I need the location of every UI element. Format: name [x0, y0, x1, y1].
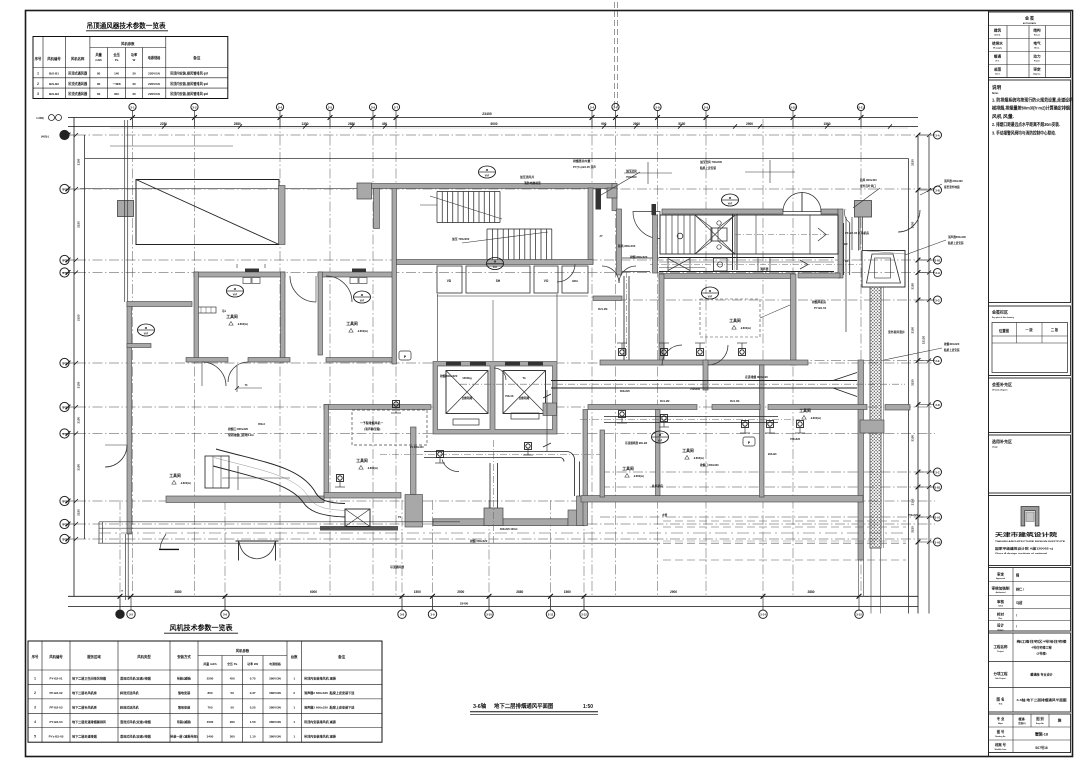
svg-text:风机类型: 风机类型	[137, 654, 151, 659]
svg-text:3-11: 3-11	[548, 613, 554, 617]
svg-text:3150: 3150	[77, 221, 81, 228]
svg-text:3-D: 3-D	[935, 403, 939, 407]
svg-text:1.50: 1.50	[250, 720, 256, 724]
svg-text:消声器 600x400: 消声器 600x400	[944, 179, 963, 183]
svg-text:-9.800(m): -9.800(m)	[740, 327, 751, 330]
svg-text:PY(Ys)-B2-05 消声: PY(Ys)-B2-05 消声	[573, 165, 596, 169]
svg-text:2: 2	[37, 82, 39, 86]
svg-text:-9.800(m): -9.800(m)	[633, 475, 644, 478]
svg-text:(400) |: (400) |	[41, 135, 49, 139]
svg-text:3150: 3150	[911, 327, 915, 334]
svg-text:一予留排烟风机一: 一予留排烟风机一	[360, 420, 383, 425]
svg-text:选用补充区: 选用补充区	[992, 438, 1012, 444]
svg-text:1-6D9|: 1-6D9|	[36, 117, 44, 120]
svg-text:3-6: 3-6	[371, 105, 376, 109]
svg-text:/: /	[1016, 613, 1017, 617]
right rooms walls	[600, 360, 808, 365]
svg-text:1500: 1500	[414, 590, 421, 594]
svg-text:3. 手动报警风阀均与消防控制中心联动.: 3. 手动报警风阀均与消防控制中心联动.	[992, 129, 1056, 136]
svg-text:VAF: VAF	[728, 202, 733, 205]
svg-text:1:50: 1:50	[583, 704, 593, 710]
fan symbol 6	[487, 258, 504, 270]
svg-text:BiS-B3: BiS-B3	[768, 452, 777, 456]
svg-text:吊1: 吊1	[222, 309, 227, 313]
svg-text:排烟口 800x320: 排烟口 800x320	[228, 427, 249, 431]
svg-text:风机 风量.: 风机 风量.	[992, 113, 1014, 120]
lobby walls	[437, 294, 439, 361]
svg-text:0.75: 0.75	[250, 677, 256, 681]
svg-text:1: 1	[293, 734, 295, 738]
leader annotations	[596, 172, 640, 198]
svg-text:梅江南住宅区4号地住宅楼: 梅江南住宅区4号地住宅楼	[1017, 639, 1068, 644]
svg-text:P: P	[404, 355, 407, 359]
svg-text:建筑: 建筑	[993, 28, 1002, 33]
svg-text:3-9: 3-9	[430, 613, 434, 617]
svg-text:国家甲级建筑设计院 A级120062-sj: 国家甲级建筑设计院 A级120062-sj	[995, 546, 1053, 551]
door arc east	[898, 210, 920, 232]
svg-text:700x400: 700x400	[690, 387, 701, 391]
svg-text:760x320: 760x320	[790, 437, 801, 441]
svg-text:3-8: 3-8	[655, 105, 660, 109]
ramp diagonal	[136, 180, 279, 245]
svg-text:30: 30	[132, 72, 136, 76]
ramp outline	[136, 180, 279, 245]
svg-text:RLS-2M: RLS-2M	[598, 308, 607, 311]
svg-text:750x320: 750x320	[908, 514, 918, 517]
svg-text:4号住宅楼工程: 4号住宅楼工程	[1031, 644, 1052, 649]
shaft boxes	[437, 266, 462, 293]
svg-text:吊顶内安装排风机 减振: 吊顶内安装排风机 减振	[304, 733, 337, 738]
svg-text:吊顶式通风器: 吊顶式通风器	[68, 91, 88, 96]
svg-text:M: M	[709, 289, 712, 293]
svg-text:800: 800	[207, 691, 212, 695]
dark wall segment SW	[320, 526, 398, 531]
upper faint line	[110, 127, 908, 129]
svg-text:斜流式送风机: 斜流式送风机	[119, 690, 139, 695]
svg-text:地下二层卫生间排风排烟: 地下二层卫生间排风排烟	[72, 676, 106, 681]
room2 walls	[318, 272, 396, 277]
NE intake duct lines	[858, 217, 860, 251]
svg-text:风机参数: 风机参数	[121, 41, 135, 46]
svg-text:PF-B2-03: PF-B2-03	[49, 705, 62, 709]
svg-text:电源规格: 电源规格	[269, 661, 281, 666]
svg-text:总图: 总图	[994, 67, 1002, 72]
svg-text:3-11: 3-11	[858, 105, 864, 109]
svg-text:吊顶式通风器: 吊顶式通风器	[68, 71, 88, 76]
svg-text:风机技术参数一览表: 风机技术参数一览表	[170, 623, 234, 632]
svg-text:30: 30	[132, 82, 136, 86]
svg-text:PY-B2-01: PY-B2-01	[49, 677, 62, 681]
svg-text:校对: 校对	[997, 611, 1005, 616]
duct fittings	[619, 349, 626, 356]
svg-text:3150: 3150	[911, 526, 915, 533]
svg-text:VAF: VAF	[708, 295, 713, 298]
air handling unit	[660, 215, 838, 254]
left dimension lines	[73, 118, 75, 597]
svg-text:700: 700	[207, 705, 212, 709]
svg-text:80: 80	[97, 72, 101, 76]
west wing grille	[196, 307, 216, 313]
svg-text:Approved: Approved	[996, 577, 1006, 580]
west outer lower lines	[98, 522, 100, 543]
svg-text:落地安装: 落地安装	[178, 690, 191, 695]
svg-text:常闭排烟口距地2.2m: 常闭排烟口距地2.2m	[228, 433, 254, 437]
svg-text:BiS-B3: BiS-B3	[49, 92, 59, 96]
svg-text:地下二层走道排烟: 地下二层走道排烟	[72, 733, 97, 738]
svg-text:消声器600x400: 消声器600x400	[948, 235, 966, 239]
svg-text:混流式风机(双速)/排烟: 混流式风机(双速)/排烟	[120, 676, 151, 681]
project name rows	[989, 633, 1071, 712]
svg-text:3400: 3400	[207, 734, 214, 738]
svg-text:3150: 3150	[911, 159, 915, 166]
svg-text:-9.800(m): -9.800(m)	[237, 323, 248, 326]
svg-text:(消声静压箱): (消声静压箱)	[364, 426, 380, 431]
door arc stair	[557, 265, 575, 283]
svg-text:350x4: 350x4	[258, 423, 266, 426]
fresh air intake	[862, 251, 905, 288]
svg-text:分项工程: 分项工程	[994, 671, 1008, 676]
stair west wall	[392, 188, 397, 364]
door arc room2	[326, 276, 352, 302]
svg-text:H.V.: H.V.	[996, 61, 1000, 63]
west wall lower lines	[125, 534, 127, 600]
svg-text:Usage: Usage	[992, 447, 998, 449]
svg-text:3-8: 3-8	[400, 613, 404, 617]
svg-text:3-J: 3-J	[62, 258, 66, 262]
svg-text:380V/3N: 380V/3N	[269, 677, 281, 681]
south rooms wall	[581, 496, 863, 503]
svg-text:加重轿厢: 加重轿厢	[518, 396, 530, 400]
hatched air shaft	[870, 287, 881, 548]
east wall tail lines	[858, 560, 860, 596]
svg-text:BiS-B2: BiS-B2	[49, 82, 59, 86]
svg-text:3150: 3150	[911, 283, 915, 290]
svg-text:Elect.: Elect.	[1034, 47, 1040, 50]
svg-text:1: 1	[34, 677, 36, 681]
door arc south1	[160, 534, 166, 549]
svg-text:图 别: 图 别	[1036, 716, 1044, 721]
version table section	[989, 306, 1071, 376]
svg-text:工具间: 工具间	[169, 473, 181, 478]
svg-text:RLS-1M: RLS-1M	[730, 400, 739, 403]
svg-text:3-J: 3-J	[62, 187, 66, 191]
svg-text:功率 kW: 功率 kW	[247, 661, 258, 666]
double door south	[236, 540, 279, 542]
svg-text:图 号: 图 号	[997, 729, 1005, 734]
interior dims	[546, 390, 548, 452]
svg-text:会签补充区: 会签补充区	[992, 381, 1012, 387]
svg-text:服务区域: 服务区域	[87, 654, 101, 659]
AHU west wall2	[653, 215, 658, 273]
svg-text:排烟 500x320: 排烟 500x320	[470, 539, 488, 543]
svg-text:3150: 3150	[77, 381, 81, 388]
svg-text:械排烟,排烟量按60m3/(h·m2)计算确定排烟: 械排烟,排烟量按60m3/(h·m2)计算确定排烟	[992, 105, 1071, 112]
door arc mid	[290, 276, 316, 302]
svg-text:动力: 动力	[1033, 54, 1041, 59]
door arc lobby2	[442, 460, 459, 472]
svg-text:3-15: 3-15	[856, 613, 862, 617]
svg-text:暖施-18: 暖施-18	[1035, 732, 1048, 737]
svg-text:天津市建筑设计院: 天津市建筑设计院	[995, 531, 1058, 539]
svg-text:Power: Power	[1034, 61, 1040, 63]
svg-text:室外百叶风口: 室外百叶风口	[860, 184, 876, 188]
svg-text:2580: 2580	[234, 122, 241, 126]
svg-text:P: P	[748, 441, 751, 445]
AHU room south wall b	[798, 273, 840, 278]
svg-text:800x320: 800x320	[620, 390, 630, 393]
svg-text:3150: 3150	[911, 498, 915, 505]
svg-text:260: 260	[230, 720, 235, 724]
svg-text:1350kg: 1350kg	[462, 376, 472, 380]
svg-text:地下二层补风机房: 地下二层补风机房	[72, 690, 97, 695]
south line b	[99, 527, 330, 529]
svg-text:70: 70	[245, 384, 248, 387]
svg-text:图 名: 图 名	[997, 696, 1005, 701]
ramp east wall	[279, 186, 286, 245]
svg-text:3150: 3150	[77, 314, 81, 321]
svg-text:说明: 说明	[992, 84, 1002, 91]
svg-text:接至室外地面: 接至室外地面	[943, 185, 960, 189]
svg-text:吊顶内安装排风机 减振: 吊顶内安装排风机 减振	[304, 719, 337, 724]
svg-text:3-J: 3-J	[62, 271, 66, 275]
svg-text:1: 1	[293, 677, 295, 681]
west wall upper lines	[124, 120, 126, 302]
svg-text:工具间: 工具间	[729, 318, 741, 323]
AHU room south wall a	[659, 274, 795, 279]
svg-text:排烟 800x320: 排烟 800x320	[630, 255, 648, 259]
fan symbol 5	[702, 287, 719, 299]
svg-text:备注: 备注	[192, 55, 201, 60]
svg-text:PF-B2-02 补风机房: PF-B2-02 补风机房	[845, 231, 869, 235]
svg-text:吊顶内安装,接风管排风 φd: 吊顶内安装,接风管排风 φd	[170, 81, 208, 86]
svg-text:贴梁上皮安装: 贴梁上皮安装	[948, 241, 964, 245]
svg-text:工具间: 工具间	[682, 448, 694, 453]
door arc AHU room	[633, 212, 660, 239]
top-left fan spec table	[33, 37, 228, 99]
north wall A	[368, 184, 617, 189]
svg-text:40C: 40C	[114, 92, 120, 96]
svg-text:PF-B2-02: PF-B2-02	[49, 691, 62, 695]
svg-text:贴梁上皮安装: 贴梁上皮安装	[944, 348, 960, 352]
svg-text:VAF: VAF	[658, 439, 663, 442]
svg-text:序号: 序号	[31, 654, 39, 659]
svg-text:-9.800(m): -9.800(m)	[693, 457, 704, 460]
svg-text:Struct.: Struct.	[1034, 34, 1041, 37]
legend section	[989, 435, 1071, 493]
svg-text:3-5: 3-5	[129, 613, 133, 617]
svg-text:落地安装: 落地安装	[178, 704, 191, 709]
svg-text:消声器2 600x320 ,贴梁上皮安装下送: 消声器2 600x320 ,贴梁上皮安装下送	[304, 704, 355, 709]
svg-text:3-10: 3-10	[790, 105, 796, 109]
vertical centerline top	[614, 2, 616, 107]
east site line	[908, 159, 910, 614]
svg-text:设计: 设计	[997, 623, 1005, 628]
svg-text:全压 Pa: 全压 Pa	[226, 661, 238, 666]
svg-text:电气: 电气	[1033, 41, 1041, 46]
svg-text:Major: Major	[998, 723, 1003, 725]
svg-text:Sub Project: Sub Project	[995, 677, 1006, 680]
svg-text:380V/3N: 380V/3N	[269, 691, 281, 695]
svg-text:2: 2	[293, 691, 295, 695]
svg-text:3-A2: 3-A2	[935, 540, 941, 544]
south line c	[98, 542, 660, 544]
bottom dimension lines	[68, 595, 918, 597]
svg-text:Workfile Case: Workfile Case	[995, 749, 1007, 751]
fan room dashed box	[700, 299, 760, 337]
svg-text:空调(K): 空调(K)	[1018, 721, 1026, 725]
door arc room1b	[228, 362, 248, 382]
svg-text:斜流式送风机: 斜流式送风机	[119, 704, 139, 709]
door arc room1	[202, 362, 226, 386]
svg-text:吊装(减振): 吊装(减振)	[177, 719, 191, 724]
svg-text:AUTOGRAPH: AUTOGRAPH	[1023, 22, 1037, 25]
svg-text:Drawn: Drawn	[998, 629, 1005, 631]
svg-text:2880: 2880	[174, 590, 181, 594]
svg-text:450: 450	[382, 122, 388, 126]
svg-text:(3号楼): (3号楼)	[1037, 650, 1047, 655]
curved exhaust duct	[213, 466, 345, 517]
svg-text:3150: 3150	[77, 417, 81, 424]
svg-text:安装方式: 安装方式	[177, 654, 191, 659]
double door arcs N	[783, 193, 802, 212]
door arc rrooms2	[708, 345, 728, 365]
svg-text:0.25: 0.25	[250, 705, 256, 709]
svg-text:吊装(减振): 吊装(减振)	[177, 676, 191, 681]
svg-text:23400: 23400	[482, 112, 492, 116]
svg-text:序号: 序号	[34, 56, 42, 61]
svg-text:-9.800(m): -9.800(m)	[810, 417, 821, 420]
svg-text:Project: Project	[997, 650, 1004, 653]
svg-text:3-6轴 地下二层排烟通风平面图: 3-6轴 地下二层排烟通风平面图	[1017, 697, 1067, 702]
JY room bottom wall	[593, 296, 622, 301]
dark stub NW of AHU	[652, 204, 657, 215]
svg-text:1350: 1350	[301, 122, 308, 126]
svg-text:3150: 3150	[911, 379, 915, 386]
svg-text:暖通施 专业设计: 暖通施 专业设计	[1030, 672, 1053, 677]
svg-text:水管: 水管	[662, 513, 668, 517]
svg-text:审核加强制: 审核加强制	[992, 585, 1011, 590]
svg-text:吊顶通风器 BiS-B2: 吊顶通风器 BiS-B2	[625, 441, 648, 445]
BF duct	[843, 223, 845, 275]
svg-text:位置图: 位置图	[999, 328, 1010, 333]
svg-text:300: 300	[230, 734, 235, 738]
title bottom block	[989, 714, 1071, 753]
svg-text:3-J: 3-J	[62, 405, 66, 409]
svg-text:3-H1: 3-H1	[935, 258, 941, 262]
svg-text:3-4: 3-4	[278, 105, 283, 109]
svg-text:排烟400x320: 排烟400x320	[944, 342, 960, 346]
svg-text:80: 80	[97, 82, 101, 86]
svg-text:23400: 23400	[460, 602, 469, 606]
north wall B	[662, 209, 783, 214]
svg-text:加压送风井: 加压送风井	[519, 175, 534, 179]
svg-text:3: 3	[34, 705, 36, 709]
svg-text:工具间: 工具间	[346, 321, 358, 326]
svg-text:排烟竖井内置: 排烟竖井内置	[573, 158, 590, 163]
svg-text:2500: 2500	[207, 677, 214, 681]
approval rows	[989, 568, 1071, 632]
svg-text:备注: 备注	[337, 654, 346, 659]
svg-text:3-10: 3-10	[486, 613, 492, 617]
svg-text:220V/1N: 220V/1N	[148, 92, 160, 96]
svg-text:Pa: Pa	[115, 58, 119, 62]
svg-text:给排水: 给排水	[992, 41, 1003, 46]
svg-text:混流式风机(双速)/排烟: 混流式风机(双速)/排烟	[120, 733, 151, 738]
svg-text:工具间: 工具间	[799, 408, 811, 413]
west wall	[127, 302, 132, 534]
svg-text:消防电梯前室: 消防电梯前室	[523, 181, 541, 185]
svg-text:工具间: 工具间	[356, 458, 368, 463]
fan room east wall	[791, 274, 797, 365]
svg-text:BiS-B1: BiS-B1	[49, 72, 59, 76]
svg-text:3150: 3150	[77, 509, 81, 516]
svg-text:室外新风竖井: 室外新风竖井	[888, 330, 905, 334]
svg-text:排烟口 800x320: 排烟口 800x320	[700, 463, 719, 467]
svg-text:1: 1	[293, 705, 295, 709]
svg-text:Class A design institute of na: Class A design institute of national	[995, 552, 1048, 555]
column box NE	[855, 201, 872, 218]
exhaust duct band	[659, 257, 834, 259]
north wall C	[821, 209, 838, 214]
svg-text:3-C: 3-C	[935, 470, 939, 474]
svg-text:加压送风: 加压送风	[625, 169, 637, 173]
svg-text:3-J: 3-J	[62, 499, 66, 503]
branch ducts	[424, 451, 566, 453]
title block left border	[988, 11, 990, 757]
svg-text:Key plan of this drawing: Key plan of this drawing	[992, 316, 1015, 319]
svg-text:5150: 5150	[678, 122, 685, 126]
south step wall a	[568, 510, 584, 526]
svg-text:M: M	[145, 326, 148, 330]
svg-text:3-7: 3-7	[394, 105, 399, 109]
svg-text:3-G: 3-G	[935, 298, 939, 302]
svg-text:二 版: 二 版	[1051, 327, 1059, 332]
fan symbol 1	[138, 324, 155, 336]
svg-text:140: 140	[114, 72, 119, 76]
svg-text:3-B: 3-B	[935, 188, 939, 192]
svg-text:功率: 功率	[131, 52, 138, 57]
svg-text:220V/1N: 220V/1N	[148, 72, 160, 76]
svg-text:工具间: 工具间	[622, 466, 634, 471]
room1 walls	[194, 272, 285, 277]
svg-text:RLS-2M: RLS-2M	[660, 400, 669, 403]
west wall step	[127, 344, 151, 348]
svg-text:450: 450	[230, 677, 235, 681]
svg-text:3-J: 3-J	[62, 361, 66, 365]
svg-text:3150: 3150	[77, 464, 81, 471]
svg-text:台数: 台数	[291, 654, 298, 659]
NE riser lines	[845, 217, 847, 332]
svg-text:Gen.l: Gen.l	[995, 74, 1000, 76]
horizontal axis grid lines	[76, 134, 935, 136]
fan symbol 3	[354, 291, 371, 303]
svg-text:700x18: 700x18	[505, 395, 514, 398]
svg-text:600x320 400x4: 600x320 400x4	[500, 528, 518, 531]
svg-text:/: /	[1016, 625, 1017, 629]
shaft door arcs	[602, 266, 619, 283]
pavement lines	[663, 520, 906, 522]
svg-text:全压: 全压	[112, 52, 120, 57]
svg-text:3-B1: 3-B1	[935, 485, 941, 489]
stair riser dark bar	[596, 189, 602, 210]
top axis bubbles	[129, 103, 136, 110]
svg-text:2880: 2880	[807, 590, 814, 594]
svg-text:吊顶通风器技术参数一览表: 吊顶通风器技术参数一览表	[86, 21, 166, 30]
short line 146	[110, 145, 233, 147]
svg-text:0.37: 0.37	[250, 691, 256, 695]
svg-text:专 业: 专 业	[997, 716, 1005, 721]
svg-text:M: M	[234, 287, 237, 291]
